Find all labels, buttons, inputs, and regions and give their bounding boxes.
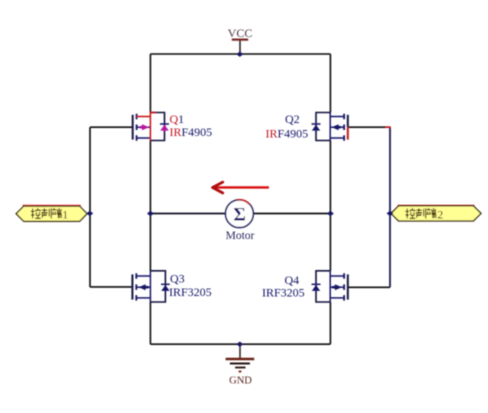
glyph 制 [416, 208, 426, 218]
svg-text:IRF4905: IRF4905 [266, 127, 309, 141]
junction dot port1 to gate bus [86, 211, 93, 216]
power port GND [226, 344, 255, 386]
junction dot at GND tap [236, 342, 243, 347]
junction dot motor row left [147, 211, 154, 216]
current direction arrow (red, pointing left) [213, 182, 269, 193]
wire Q2 gate corner highlight [386, 126, 391, 128]
svg-text:GND: GND [229, 375, 252, 386]
wire left inner vertical lower (Q3 source to bottom rail) [149, 302, 151, 344]
wire left inner vertical upper (top rail to Q1 drain) [149, 54, 151, 113]
wire right inner vertical lower (Q4 source to bottom rail) [329, 302, 331, 344]
junction dot port2 to gate bus [387, 211, 394, 216]
wire bottom rail GND [150, 343, 330, 345]
svg-text:IRF3205: IRF3205 [169, 285, 212, 299]
port 控制端1 (control terminal 1) [16, 205, 87, 221]
wire right inner vertical upper (top rail to Q2 drain) [329, 54, 331, 113]
transistor Q3 (IRF3205 N-MOSFET, gate left) [132, 270, 169, 303]
transistor Q4 (IRF3205 N-MOSFET, gate right, mirrored) [312, 270, 348, 303]
wire left gate bus vertical [89, 127, 91, 287]
junction dot at VCC tap [236, 52, 243, 57]
svg-text:Q3: Q3 [170, 272, 185, 286]
svg-text:IRF3205: IRF3205 [262, 286, 305, 300]
glyph 端 [52, 208, 62, 218]
transistor Q2 (IRF4905 P-MOSFET, gate right, mirrored) [312, 112, 348, 142]
svg-text:VCC: VCC [228, 26, 253, 40]
transistor Q1 (IRF4905 P-MOSFET, gate left) [133, 112, 169, 142]
power port VCC [228, 26, 253, 54]
svg-text:Q2: Q2 [285, 112, 300, 126]
wire right gate bus vertical [389, 127, 391, 287]
wire Q1 gate lead [90, 126, 133, 128]
port 控制端2 (control terminal 2) [391, 205, 481, 221]
motor M1 circle [226, 200, 254, 228]
wire Q4 gate lead [348, 286, 390, 288]
svg-text:2: 2 [437, 207, 443, 221]
glyph 端 [427, 208, 437, 218]
wire top rail VCC [150, 53, 330, 55]
svg-text:Motor: Motor [226, 230, 255, 242]
svg-text:1: 1 [62, 207, 68, 221]
wire Q3 gate lead [90, 286, 132, 288]
glyph 控 [31, 208, 41, 218]
wire right inner vertical middle (Q2 source to Q4 drain) [329, 141, 331, 271]
junction dot motor row right [327, 211, 334, 216]
wire Q2 gate lead [348, 126, 390, 128]
svg-text:Σ: Σ [233, 205, 245, 226]
svg-text:IRF4905: IRF4905 [170, 125, 213, 139]
wire left inner vertical middle (Q1 source to Q3 drain) [149, 141, 151, 271]
glyph 制 [41, 208, 51, 218]
wire motor row right [253, 213, 330, 215]
glyph 控 [405, 208, 415, 218]
svg-text:Q1: Q1 [170, 112, 185, 126]
wire motor row left [150, 213, 225, 215]
